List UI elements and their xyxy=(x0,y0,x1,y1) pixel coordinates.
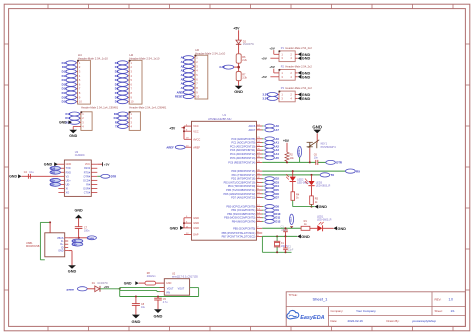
pin 1 of H3 xyxy=(78,113,81,115)
net label D8 xyxy=(117,95,127,99)
pin 3 of H3 xyxy=(78,121,81,123)
svg-text:VOUT: VOUT xyxy=(178,287,185,290)
wire KEY1 to reset line xyxy=(309,148,311,162)
pin 1 of H5 xyxy=(126,113,129,115)
svg-text:D0: D0 xyxy=(115,61,119,65)
U1 left pin 5 GND xyxy=(184,222,192,224)
svg-text:D9: D9 xyxy=(115,100,119,104)
U1 right pin PC0 (ADC0/PCINT8) xyxy=(257,138,263,140)
svg-text:A1: A1 xyxy=(275,141,279,145)
wire D2 to R6 xyxy=(238,44,240,54)
wire GND to C7 xyxy=(78,218,80,227)
net label RX0 xyxy=(50,166,60,170)
svg-text:D11: D11 xyxy=(114,112,119,116)
svg-text:10n: 10n xyxy=(314,156,319,159)
pin 5 of H2 xyxy=(126,79,129,81)
svg-text:A0: A0 xyxy=(181,56,185,60)
pin 8 of H2 xyxy=(126,92,129,94)
svg-text:A2: A2 xyxy=(275,144,279,148)
svg-text:PD3 (INT1/OC2B/PCINT19): PD3 (INT1/OC2B/PCINT19) xyxy=(224,180,256,184)
header H3 xyxy=(81,112,92,131)
header H4 xyxy=(78,60,91,104)
ground P1 pin2 xyxy=(298,52,302,56)
svg-text:LED-0603_R: LED-0603_R xyxy=(316,185,331,188)
svg-text:A7: A7 xyxy=(275,128,279,132)
svg-text:ams1117-5.0_C917155: ams1117-5.0_C917155 xyxy=(172,276,198,279)
ground for crystal caps xyxy=(297,234,301,238)
svg-text:D7: D7 xyxy=(115,91,119,95)
U1 right pin PB6 (PCINT6/XTAL1/TOSC1) xyxy=(257,232,263,234)
svg-text:RX: RX xyxy=(356,169,360,173)
U1 right pin PB3 (MOSI/OC2A/PCINT3) xyxy=(257,217,263,219)
pin 4 of H3 xyxy=(78,125,81,127)
net label A5 xyxy=(183,77,193,81)
svg-text:PB3 (MOSI/OC2A/PCINT3): PB3 (MOSI/OC2A/PCINT3) xyxy=(224,216,255,220)
ground P2 pin4 xyxy=(298,75,302,79)
svg-text:AREF: AREF xyxy=(193,145,200,149)
wire R4 R5 bottoms to ground xyxy=(292,200,294,206)
svg-text:GND: GND xyxy=(59,121,67,125)
capacitor C8 xyxy=(132,303,140,305)
wire to ground flag U1 xyxy=(180,227,184,229)
svg-text:22pF: 22pF xyxy=(288,248,294,251)
wire ferrite to U2 GND pin xyxy=(156,282,165,284)
svg-text:GND: GND xyxy=(66,163,72,166)
svg-text:PC2 (ADC2/PCINT10): PC2 (ADC2/PCINT10) xyxy=(230,144,255,148)
svg-text:UD-: UD- xyxy=(50,183,54,186)
svg-text:ATMEGA328P-MU: ATMEGA328P-MU xyxy=(208,117,231,121)
svg-text:RX: RX xyxy=(115,120,119,124)
pin 5 of H6 xyxy=(192,74,195,76)
wire R1 to LED1 xyxy=(310,227,317,229)
svg-text:PB4 (MISO/PCINT4): PB4 (MISO/PCINT4) xyxy=(232,219,256,223)
svg-text:EasyEDA: EasyEDA xyxy=(300,315,324,321)
U1 right pin PD3 (INT1/OC2B/PCINT19) xyxy=(257,181,263,183)
U2 right pin VOUT xyxy=(190,287,199,289)
svg-text:P2: P2 xyxy=(281,65,285,69)
svg-text:D13: D13 xyxy=(291,216,293,221)
net label D7 xyxy=(262,197,263,199)
USB connector USB1 body xyxy=(45,233,65,257)
svg-text:Drawn By:: Drawn By: xyxy=(387,319,400,323)
U3 right pin R232 xyxy=(91,167,97,169)
U1 right pin PD1 (TXD/PCINT17) xyxy=(257,174,263,176)
regulator U2 body xyxy=(164,279,189,296)
svg-text:D5: D5 xyxy=(115,82,119,86)
wire USB shield loop xyxy=(40,221,50,223)
svg-text:PUSHGW4*4: PUSHGW4*4 xyxy=(321,146,337,149)
svg-text:2.2k: 2.2k xyxy=(242,59,247,62)
svg-text:A2: A2 xyxy=(181,64,185,68)
svg-text:Your Company: Your Company xyxy=(356,309,376,313)
svg-text:PB0 (ICP/CLKO/PCINT0): PB0 (ICP/CLKO/PCINT0) xyxy=(226,205,255,209)
wire +5V to VCC pins xyxy=(182,127,185,129)
net label D6 xyxy=(262,193,263,195)
svg-text:D11: D11 xyxy=(62,65,67,69)
wire C7 to VBUS net xyxy=(78,229,80,238)
svg-text:C4: C4 xyxy=(24,171,28,174)
svg-text:Header-Male 2.54_1x10: Header-Male 2.54_1x10 xyxy=(195,51,225,55)
svg-text:A6: A6 xyxy=(275,124,279,128)
LED LED1 xyxy=(317,225,322,231)
net label AREF at U1 xyxy=(175,145,185,149)
net label A4 xyxy=(262,153,263,155)
wire VIN line xyxy=(120,290,157,292)
pin 9 of H2 xyxy=(126,96,129,98)
title block row line 2 xyxy=(328,315,465,317)
U3 right pin RTS# xyxy=(91,171,97,173)
svg-text:D12: D12 xyxy=(275,219,280,223)
svg-text:PB2 (SS/OC1B/PCINT2): PB2 (SS/OC1B/PCINT2) xyxy=(227,212,255,216)
wire to C5 xyxy=(157,297,159,299)
svg-text:AREF: AREF xyxy=(166,145,174,149)
svg-text:D3: D3 xyxy=(115,74,119,78)
wire USB GND to ground xyxy=(68,250,72,252)
ground flag H3 row3 xyxy=(69,121,72,125)
title block rev column divider xyxy=(431,292,433,316)
wire to 3.3V label xyxy=(233,66,239,68)
ground below USB1 xyxy=(68,265,76,269)
ground P2 pin2 xyxy=(298,71,302,75)
wire R7 to ground xyxy=(238,80,240,85)
pin 3 of H6 xyxy=(192,65,195,67)
wire U1 GND pins xyxy=(183,218,185,228)
USB1 pin ID xyxy=(65,246,69,248)
svg-text:Header-Male 2.54_2x2: Header-Male 2.54_2x2 xyxy=(285,86,312,90)
wire +5V node up to VOUT line xyxy=(120,287,165,289)
wire P1 pin4 to ground xyxy=(295,57,298,59)
header P2 xyxy=(279,70,295,81)
svg-text:D3: D3 xyxy=(275,180,279,184)
svg-text:UD+: UD+ xyxy=(66,179,72,182)
net label D15 xyxy=(66,82,76,86)
net label D19 xyxy=(66,100,76,104)
ground after LED1 xyxy=(334,226,338,230)
net label A1 xyxy=(262,142,263,144)
pin 6 of H6 xyxy=(192,78,195,80)
pin 1 of H6 xyxy=(192,57,195,59)
U3 left pin XO xyxy=(58,191,64,193)
MCU U1 body xyxy=(192,121,257,240)
node R2 to reset line xyxy=(286,161,288,162)
net label D11 xyxy=(69,112,79,116)
svg-text:D16: D16 xyxy=(62,87,67,91)
U1 right pin PD6 (AIN0/OC0A/PCINT22) xyxy=(257,193,263,195)
svg-text:DSR#: DSR# xyxy=(83,187,90,190)
U1 right pin ADC6 xyxy=(257,125,263,127)
svg-text:D9: D9 xyxy=(275,208,279,212)
svg-text:youcanreplylishup: youcanreplylishup xyxy=(412,319,436,323)
svg-text:GND: GND xyxy=(302,97,311,101)
U3 left pin V3 xyxy=(58,175,64,177)
svg-text:Header-Male 2.54_1x4_C95481: Header-Male 2.54_1x4_C95481 xyxy=(81,105,118,109)
net label UD- at USB xyxy=(72,239,83,243)
net label UD- at U3 xyxy=(50,183,60,187)
wire +5V to R2 xyxy=(286,143,288,153)
svg-text:PD6 (AIN0/OC0A/PCINT22): PD6 (AIN0/OC0A/PCINT22) xyxy=(223,192,255,196)
pin 10 of H2 xyxy=(126,101,129,103)
svg-text:22pF: 22pF xyxy=(281,229,287,232)
net label TX0 xyxy=(50,170,60,174)
net label A4 xyxy=(183,73,193,77)
pin 8 of H4 xyxy=(74,92,77,94)
ferrite bead R8 xyxy=(145,281,156,285)
node LED2 tap xyxy=(292,170,294,172)
wire LED1 to ground xyxy=(323,227,334,229)
U1 left pin 22 DAP xyxy=(184,234,192,236)
svg-text:PC5 (ADC5/PCINT13): PC5 (ADC5/PCINT13) xyxy=(230,156,255,160)
svg-text:Header-Male 2.54_2x2: Header-Male 2.54_2x2 xyxy=(285,46,312,50)
U1 right pin PC4 (ADC4/PCINT12) xyxy=(257,153,263,155)
svg-text:PB7 (PCINT7/XTAL2/TOSC2): PB7 (PCINT7/XTAL2/TOSC2) xyxy=(222,234,256,238)
push button KEY1 xyxy=(309,143,311,149)
U1 right pin PC2 (ADC2/PCINT10) xyxy=(257,145,263,147)
net label D2 xyxy=(262,178,263,180)
USB1 pin D- xyxy=(65,240,69,242)
wire bottom rail xyxy=(119,291,121,297)
net label D9 xyxy=(117,100,127,104)
svg-text:Header-Male 2.54_2x2: Header-Male 2.54_2x2 xyxy=(285,65,312,69)
wire shield to USB top xyxy=(49,222,51,232)
svg-text:D6: D6 xyxy=(115,87,119,91)
svg-text:+5V: +5V xyxy=(269,46,276,50)
U3 right pin VCC xyxy=(91,163,97,165)
svg-text:Sheet:: Sheet: xyxy=(435,309,443,313)
net label A1 xyxy=(183,60,193,64)
wire TX net xyxy=(262,174,320,176)
svg-text:A6: A6 xyxy=(181,82,185,86)
ground below H3 xyxy=(69,130,77,134)
net label power at USB xyxy=(87,236,96,240)
U3 left pin GND xyxy=(58,163,64,165)
svg-text:GND: GND xyxy=(193,226,199,230)
svg-text:Sheet_1: Sheet_1 xyxy=(313,297,329,302)
svg-text:GND: GND xyxy=(124,282,132,286)
ground for R4 R5 xyxy=(315,205,319,209)
EasyEDA logo xyxy=(287,310,299,319)
capacitor C2 xyxy=(283,247,288,249)
svg-text:3.3k: 3.3k xyxy=(242,76,247,79)
svg-text:AVCC: AVCC xyxy=(193,137,200,141)
title block outline xyxy=(286,292,465,327)
resistor R5 xyxy=(310,196,314,205)
svg-text:R232: R232 xyxy=(84,167,91,170)
svg-text:RESET: RESET xyxy=(299,147,301,155)
wire bottom xtal loop xyxy=(261,236,263,252)
net label D12 xyxy=(69,116,79,120)
svg-text:Header-Male 2.54_1x4_C95481: Header-Male 2.54_1x4_C95481 xyxy=(129,105,166,109)
U1 right pin PB7 (PCINT7/XTAL2/TOSC2) xyxy=(257,235,263,237)
wire XTAL gnd line xyxy=(262,235,297,237)
svg-text:D2: D2 xyxy=(275,177,279,181)
net label RX xyxy=(118,120,128,124)
ground P3 pin2 xyxy=(298,93,302,97)
svg-text:GND: GND xyxy=(302,57,311,61)
svg-text:PC0 (ADC0/PCINT8): PC0 (ADC0/PCINT8) xyxy=(231,137,255,141)
net label D10 xyxy=(66,61,76,65)
net label D11 xyxy=(118,112,128,116)
svg-text:VCC: VCC xyxy=(85,163,90,166)
svg-text:D17: D17 xyxy=(62,91,67,95)
svg-text:MICROUSB: MICROUSB xyxy=(26,245,40,248)
U3 left pin RXD xyxy=(58,171,64,173)
USB-serial chip U3 body xyxy=(64,160,91,196)
svg-text:DCD#: DCD# xyxy=(83,179,90,182)
svg-text:REV:: REV: xyxy=(435,298,442,302)
wire crystal to bottom loop xyxy=(276,247,278,252)
net label UD+ at USB xyxy=(72,242,83,246)
net label D0 xyxy=(117,61,127,65)
net label RESET xyxy=(183,95,193,99)
U1 left pin 20 AREF xyxy=(184,146,192,148)
svg-text:PD7 (AIN1/PCINT23): PD7 (AIN1/PCINT23) xyxy=(231,196,255,200)
svg-text:GND: GND xyxy=(131,319,140,324)
pin 7 of H6 xyxy=(192,83,195,85)
pin 9 of H4 xyxy=(74,96,77,98)
net label A6 xyxy=(262,125,263,127)
wire V3 to C4 to ground xyxy=(22,175,59,177)
capacitor C7 xyxy=(75,226,83,228)
net label D12 xyxy=(262,220,263,222)
pin 7 of H4 xyxy=(74,88,77,90)
svg-text:DAP: DAP xyxy=(193,233,199,237)
svg-text:Date:: Date: xyxy=(331,319,338,323)
svg-text:A5: A5 xyxy=(181,77,185,81)
svg-text:D11: D11 xyxy=(66,112,71,116)
title block logo cell divider xyxy=(327,307,329,327)
USB1 pin GND xyxy=(65,250,69,252)
wire R6 to R7 xyxy=(238,63,240,71)
svg-text:TXD: TXD xyxy=(66,167,71,170)
U3 right pin RI# xyxy=(91,183,97,185)
svg-text:+5V: +5V xyxy=(104,285,111,289)
resistor R4 xyxy=(291,192,295,201)
svg-text:PC1 (ADC1/PCINT9): PC1 (ADC1/PCINT9) xyxy=(231,141,255,145)
U3 left pin TXD xyxy=(58,167,64,169)
svg-text:VCC: VCC xyxy=(193,124,199,128)
U1 right pin PB2 (SS/OC1B/PCINT2) xyxy=(257,213,263,215)
svg-text:GND: GND xyxy=(166,282,172,285)
U1 right pin PC5 (ADC5/PCINT13) xyxy=(257,157,263,159)
U1 right pin PC1 (ADC1/PCINT9) xyxy=(257,142,263,144)
net label TX xyxy=(320,173,330,177)
capacitor C1 tap node xyxy=(285,227,287,229)
header H2 xyxy=(129,60,142,104)
net label D4 xyxy=(117,78,127,82)
svg-text:A3: A3 xyxy=(181,69,185,73)
net label D2 xyxy=(117,69,127,73)
pin 4 of H2 xyxy=(126,75,129,77)
net label A0 xyxy=(262,138,263,140)
svg-text:4.7u: 4.7u xyxy=(163,301,168,304)
svg-text:1k: 1k xyxy=(315,201,318,204)
svg-text:D7: D7 xyxy=(275,196,279,200)
USB1 pin VBUS xyxy=(65,237,69,239)
U3 right pin CTS# xyxy=(91,191,97,193)
node LED3 tap xyxy=(311,174,313,176)
ground below R7 xyxy=(235,86,243,90)
net label D7 xyxy=(117,91,127,95)
U1 right pin PB1 (OC1A/PCINT1) xyxy=(257,209,263,211)
svg-text:TX: TX xyxy=(115,124,119,128)
capacitor C1 xyxy=(283,229,288,231)
net label D11 xyxy=(262,217,263,219)
pin 3 of H5 xyxy=(126,121,129,123)
pin 6 of H4 xyxy=(74,83,77,85)
wire RESET net xyxy=(262,161,316,163)
svg-text:RX0: RX0 xyxy=(51,167,56,170)
pin 2 of H5 xyxy=(126,117,129,119)
pin 4 of H5 xyxy=(126,125,129,127)
svg-text:DTR#: DTR# xyxy=(84,175,91,178)
+3V flag at U3 VCC xyxy=(97,163,102,165)
svg-text:1/1: 1/1 xyxy=(451,309,456,313)
svg-text:VOUT: VOUT xyxy=(167,287,174,290)
svg-text:D10: D10 xyxy=(275,212,280,216)
U1 right pin PC6 (RESET/PCINT14) xyxy=(257,161,263,163)
pin 4 of H6 xyxy=(192,70,195,72)
pin 10 of H4 xyxy=(74,101,77,103)
svg-text:D19: D19 xyxy=(62,100,67,104)
svg-text:A7: A7 xyxy=(181,86,185,90)
crystal X1 xyxy=(274,240,280,242)
wire C1 to xtal gnd line xyxy=(285,232,287,237)
net label D13 (vertical) xyxy=(290,214,294,224)
svg-text:Header-Male 2.54_1x10: Header-Male 2.54_1x10 xyxy=(129,56,159,60)
resistor R2 xyxy=(285,152,289,161)
U3 right pin DSR# xyxy=(91,187,97,189)
svg-text:RXD: RXD xyxy=(66,171,71,174)
svg-text:XI: XI xyxy=(66,187,69,190)
svg-text:A4: A4 xyxy=(181,73,185,77)
svg-text:DTR: DTR xyxy=(111,174,116,178)
svg-text:D10: D10 xyxy=(62,61,67,65)
net label D12 xyxy=(118,116,128,120)
pin 2 of H2 xyxy=(126,66,129,68)
ground below C5 xyxy=(154,309,162,313)
pin 5 of H4 xyxy=(74,79,77,81)
net label D10 xyxy=(262,213,263,215)
title block row line 1 xyxy=(286,306,465,308)
net label D13 xyxy=(69,120,79,124)
net label RX xyxy=(346,169,356,173)
net label D14 xyxy=(66,78,76,82)
svg-text:power: power xyxy=(88,238,95,240)
svg-text:D5: D5 xyxy=(275,188,279,192)
U3 right pin DCD# xyxy=(91,179,97,181)
svg-text:GND: GND xyxy=(193,216,199,220)
svg-text:+5V: +5V xyxy=(169,126,176,130)
U1 right pin PD2 (INT0/PCINT18) xyxy=(257,178,263,180)
wire LED3 to R5 xyxy=(311,186,313,196)
wire C8 to ground xyxy=(135,305,137,314)
svg-text:CH340C: CH340C xyxy=(75,153,85,157)
svg-text:PB5 (SCK/PCINT5): PB5 (SCK/PCINT5) xyxy=(233,226,255,230)
net label DTR at U3 xyxy=(97,175,101,177)
wire VOUT loop down xyxy=(198,288,200,297)
svg-text:GND: GND xyxy=(74,208,83,212)
wire to LED3 xyxy=(311,175,313,181)
svg-text:GND: GND xyxy=(193,221,199,225)
header P3 xyxy=(279,91,295,102)
pin 2 of H4 xyxy=(74,66,77,68)
wire crystal vertical xyxy=(276,236,278,241)
svg-text:RTS#: RTS# xyxy=(84,171,91,174)
net label UD+ at U3 xyxy=(50,178,60,182)
net label A6 xyxy=(183,82,193,86)
svg-text:10k: 10k xyxy=(290,157,295,160)
wire VBUS to power xyxy=(68,237,87,239)
